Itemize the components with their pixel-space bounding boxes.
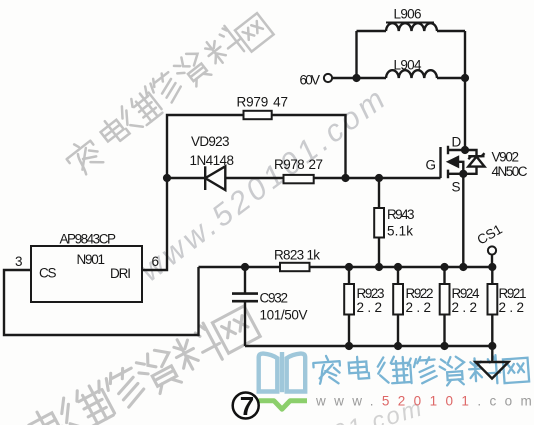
svg-text:6: 6	[152, 254, 160, 269]
wire: R979 branch left vertical	[167, 115, 244, 178]
logo text 家电维修资料网	[313, 355, 529, 386]
svg-text:VD923: VD923	[191, 134, 230, 149]
node: R923 bottom	[345, 342, 353, 350]
capacitor C932	[244, 267, 246, 293]
svg-text:4N50C: 4N50C	[492, 164, 528, 179]
svg-text:www.520101.com: www.520101.com	[315, 394, 534, 409]
node: gate rail a	[341, 174, 349, 182]
svg-text:R923: R923	[357, 286, 385, 301]
svg-text:5.1k: 5.1k	[387, 224, 413, 239]
wire: pin 3 loop	[4, 267, 199, 335]
body diode of V902	[465, 150, 477, 156]
terminal 60V	[324, 74, 332, 82]
svg-text:DRI: DRI	[110, 266, 131, 281]
watermark: bottom-left diagonal 家电维修资料网	[26, 306, 261, 425]
svg-text:101/50V: 101/50V	[260, 308, 308, 323]
wire: 60V rail	[332, 77, 465, 79]
node: R943 bottom	[375, 263, 383, 271]
svg-text:CS: CS	[39, 266, 57, 281]
resistor R921	[491, 267, 493, 346]
node: drain	[461, 146, 469, 154]
svg-text:CS1: CS1	[475, 221, 505, 247]
svg-text:7: 7	[240, 391, 254, 421]
svg-text:R823 1k: R823 1k	[274, 248, 320, 263]
resistor R823	[280, 263, 310, 271]
node: source rail junction	[459, 263, 467, 271]
wire: right vertical down to drain	[464, 31, 466, 150]
svg-text:D: D	[452, 135, 462, 150]
node: R922 bottom	[394, 342, 402, 350]
IC N901 box	[31, 246, 142, 302]
resistor R979	[244, 111, 272, 119]
svg-text:3: 3	[15, 254, 23, 269]
node: R922 top	[394, 263, 402, 271]
svg-text:60V: 60V	[300, 73, 321, 88]
svg-text:S: S	[452, 180, 461, 195]
transistor V902 mosfet	[439, 147, 441, 178]
svg-text:G: G	[426, 158, 437, 173]
node: C932 / R823 junction	[241, 263, 249, 271]
wire: L906 top rail	[357, 30, 466, 32]
wire: gate rail	[167, 177, 441, 179]
wire: bottom rail	[245, 345, 492, 347]
svg-text:C932: C932	[260, 291, 289, 306]
resistor R943 vertical	[378, 178, 380, 208]
svg-text:2.2: 2.2	[499, 300, 525, 315]
node: L right junction	[461, 74, 469, 82]
svg-text:R922: R922	[406, 286, 434, 301]
wire: source down to rail	[462, 174, 464, 267]
diode VD923	[204, 166, 206, 190]
logo book icon	[259, 352, 306, 392]
node: diode junction	[163, 174, 171, 182]
wire: mid rail	[199, 266, 493, 268]
node: CS1 rail junction	[488, 263, 496, 271]
resistor R924	[443, 267, 445, 346]
node: 60V junction	[352, 74, 360, 82]
resistor R978	[284, 175, 314, 183]
svg-text:R978 27: R978 27	[274, 157, 323, 172]
wire: R979 to right vertical	[272, 115, 346, 178]
resistor R923	[348, 267, 350, 346]
inductor L904	[386, 70, 437, 78]
svg-text:R921: R921	[499, 286, 527, 301]
wire: pin 6 to gate rail vertical	[142, 178, 167, 270]
watermark: top-left diagonal 家电维修资料网	[62, 13, 273, 179]
node: R924 top	[440, 263, 448, 271]
terminal CS1	[488, 246, 496, 254]
svg-text:L904: L904	[394, 58, 422, 73]
node: R923 top	[345, 263, 353, 271]
node: source	[459, 170, 467, 178]
svg-text:V902: V902	[492, 150, 520, 165]
ground	[491, 346, 493, 362]
svg-text:2.2: 2.2	[452, 300, 478, 315]
node: R924 bottom	[440, 342, 448, 350]
svg-text:L906: L906	[394, 7, 422, 22]
wire: L906 label underline	[386, 22, 434, 24]
svg-text:R943: R943	[387, 207, 415, 222]
svg-text:1N4148: 1N4148	[190, 153, 235, 168]
page number 7	[233, 393, 259, 419]
node: gate rail b / R943 top	[375, 174, 383, 182]
svg-text:2.2: 2.2	[357, 300, 383, 315]
svg-text:N901: N901	[77, 252, 106, 267]
svg-text:R979 47: R979 47	[237, 95, 289, 110]
node: R921 bottom / ground junction	[488, 342, 496, 350]
svg-text:R924: R924	[452, 286, 480, 301]
svg-text:2.2: 2.2	[406, 300, 432, 315]
wire: left vertical between rails	[355, 31, 357, 78]
inductor L906	[386, 23, 437, 31]
svg-text:AP9843CP: AP9843CP	[60, 232, 117, 247]
resistor R922	[397, 267, 399, 346]
logo green swoosh	[259, 401, 308, 409]
